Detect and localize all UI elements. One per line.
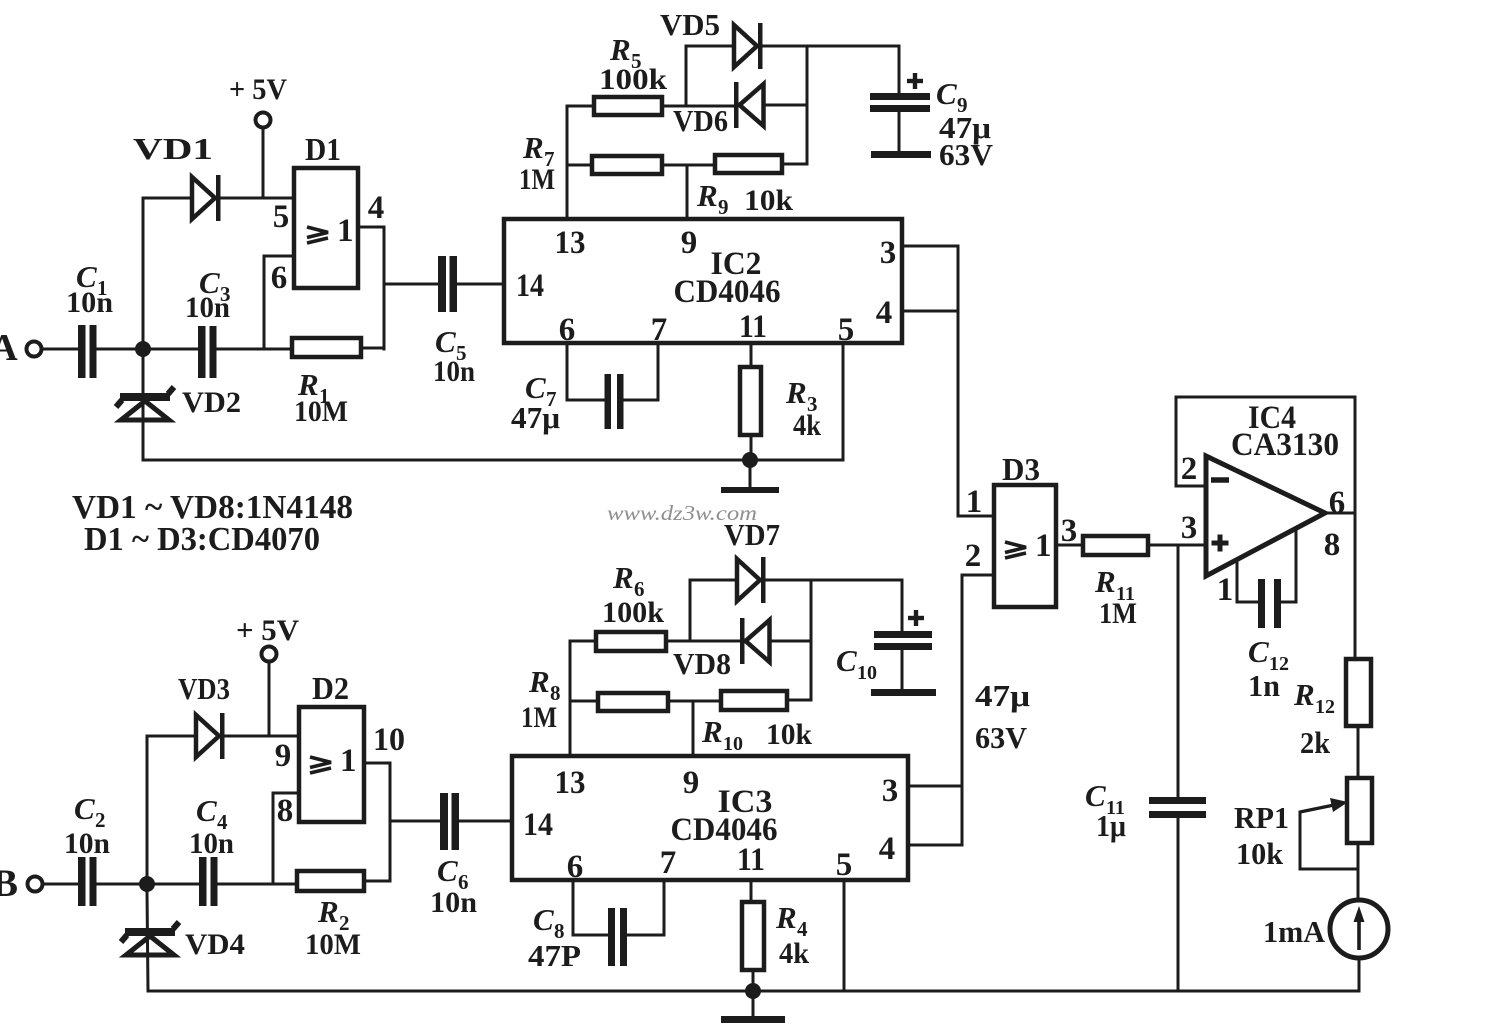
wire C2 to C4 — [96, 883, 199, 886]
resistor R3 — [740, 367, 821, 442]
wire R2 to riser — [364, 880, 390, 883]
wire node to VD3 — [147, 736, 195, 884]
svg-text:C: C — [533, 902, 554, 937]
resistor R6 — [596, 560, 666, 651]
svg-text:6: 6 — [271, 260, 288, 296]
wire IC3 pin3 — [908, 785, 962, 788]
wire R12 to RP1 — [1357, 726, 1360, 778]
svg-text:1: 1 — [337, 213, 354, 249]
svg-text:63V: 63V — [939, 137, 994, 172]
svg-text:3: 3 — [1181, 510, 1198, 546]
wire A to C1 — [41, 348, 78, 351]
node B input terminal — [0, 862, 43, 905]
svg-text:CA3130: CA3130 — [1231, 427, 1339, 463]
watermark — [607, 501, 757, 525]
wire D2 pin10 out — [364, 763, 390, 881]
wire D1 out to C5 — [384, 283, 438, 286]
gate D2 (CD4070) — [275, 670, 405, 829]
capacitor C2 — [64, 791, 110, 906]
diode VD8 — [673, 618, 770, 681]
svg-text:9: 9 — [275, 738, 292, 774]
power +5V terminal B — [236, 614, 299, 736]
resistor R2 — [297, 871, 364, 961]
wire C5 to IC2 pin14 — [457, 283, 504, 286]
meter 1mA — [1263, 900, 1388, 958]
svg-text:9: 9 — [681, 225, 698, 261]
resistor R5 — [594, 32, 667, 115]
wire IC2 pin4 — [902, 310, 958, 313]
svg-text:VD3: VD3 — [178, 671, 230, 706]
wire R11 to op-amp — [1148, 544, 1206, 547]
svg-text:D1 ~ D3:CD4070: D1 ~ D3:CD4070 — [84, 521, 320, 558]
svg-text:5: 5 — [838, 312, 855, 348]
wire D3 pin3 out — [1056, 513, 1083, 549]
node rail B / R4 — [745, 983, 761, 999]
resistor R10 — [701, 691, 812, 755]
svg-text:C: C — [437, 853, 458, 888]
svg-text:R: R — [1094, 564, 1116, 599]
capacitor C11 — [1085, 545, 1206, 991]
diode VD7 — [724, 517, 780, 603]
ground A — [721, 460, 779, 493]
svg-text:100k: 100k — [599, 63, 667, 96]
node A input terminal — [0, 327, 42, 369]
svg-text:C: C — [936, 76, 957, 111]
svg-text:47μ: 47μ — [511, 400, 560, 435]
resistor R7 — [519, 130, 662, 196]
svg-text:C: C — [74, 791, 95, 826]
svg-text:10k: 10k — [744, 184, 793, 217]
resistor R1 — [292, 338, 361, 428]
wire IC2 pin7 stub — [624, 343, 658, 400]
wire rail B — [148, 990, 1359, 993]
capacitor C5 — [433, 256, 475, 388]
svg-text:3: 3 — [1061, 513, 1078, 549]
svg-text:1M: 1M — [1099, 597, 1137, 630]
svg-text:14: 14 — [523, 807, 553, 843]
svg-text:9: 9 — [683, 765, 700, 801]
diode VD4 — [121, 891, 245, 991]
wire IC3 pin9 riser — [692, 701, 695, 756]
wire R1 to riser — [361, 347, 384, 350]
resistor R12 — [1293, 659, 1371, 760]
wire node to VD1 — [143, 198, 191, 349]
wire meter to rail — [1358, 958, 1361, 991]
IC U2: IC2 CD4046 — [504, 219, 902, 348]
wire D2 out to C6 — [390, 820, 440, 823]
svg-text:4: 4 — [876, 295, 893, 331]
capacitor C8 — [528, 902, 627, 973]
resistor R4 — [742, 900, 809, 970]
wire IC2 pin9 riser — [686, 165, 689, 219]
svg-text:+ 5V: + 5V — [236, 614, 299, 647]
wire IC3 pin6 stub — [573, 880, 607, 935]
wire R8 to R10 — [668, 700, 721, 703]
wire R9 right — [782, 163, 807, 166]
diode VD3 — [178, 671, 230, 759]
svg-text:5: 5 — [836, 847, 853, 883]
svg-text:D1: D1 — [305, 131, 341, 167]
wire R4 to rail — [752, 970, 755, 991]
op-amp IC4 CA3130 — [1176, 397, 1355, 659]
svg-text:CD4046: CD4046 — [674, 274, 781, 310]
svg-text:R: R — [696, 178, 718, 213]
svg-text:100k: 100k — [602, 596, 664, 629]
svg-text:1M: 1M — [521, 701, 557, 734]
svg-text:63V: 63V — [975, 720, 1028, 755]
svg-text:R: R — [1293, 677, 1315, 712]
note gates types — [84, 521, 320, 558]
wire IC3 pin11 stub — [750, 880, 753, 902]
wire VD left link B — [689, 580, 692, 641]
node junction A — [135, 341, 151, 357]
svg-text:10n: 10n — [189, 827, 234, 860]
svg-text:RP1: RP1 — [1234, 800, 1289, 835]
svg-text:1M: 1M — [519, 163, 555, 196]
wire C4 to R2 — [217, 883, 297, 886]
node junction B — [139, 876, 155, 892]
wire C3 to R1 — [216, 348, 292, 351]
svg-text:10: 10 — [723, 733, 743, 755]
svg-text:1n: 1n — [1248, 668, 1280, 703]
svg-text:4: 4 — [879, 831, 896, 867]
wire VD8 right — [770, 640, 811, 643]
svg-text:5: 5 — [273, 199, 290, 235]
svg-text:VD1: VD1 — [133, 131, 213, 166]
svg-text:11: 11 — [739, 309, 767, 345]
resistor R8 — [521, 664, 668, 734]
wire R8 left stub — [570, 700, 598, 703]
svg-text:12: 12 — [1315, 696, 1335, 718]
wire IC3 pin5 riser — [843, 880, 846, 991]
wire R6 to VD8 — [666, 640, 740, 643]
svg-text:C: C — [435, 324, 456, 359]
svg-text:C: C — [836, 643, 857, 678]
capacitor C12 — [1237, 529, 1296, 703]
svg-text:+ 5V: + 5V — [229, 73, 287, 106]
wire IC2 pin11 stub — [750, 343, 753, 367]
svg-text:www.dz3w.com: www.dz3w.com — [607, 501, 757, 525]
svg-text:R: R — [528, 664, 550, 699]
wire R7 left stub — [567, 164, 592, 167]
svg-text:3: 3 — [880, 235, 897, 271]
svg-text:VD5: VD5 — [660, 7, 720, 42]
wire IC2 to D3 pin1 — [958, 246, 994, 516]
capacitor C7 — [511, 370, 624, 435]
svg-text:R: R — [612, 560, 634, 595]
svg-text:1mA: 1mA — [1263, 914, 1326, 949]
svg-text:10n: 10n — [64, 827, 110, 860]
svg-text:R: R — [609, 32, 631, 67]
wire IC3 pin4 — [908, 844, 962, 847]
wire VD1 to D1 pin5 — [221, 197, 294, 200]
svg-text:2: 2 — [965, 538, 982, 574]
capacitor C10 (47u/63V) — [836, 580, 1030, 755]
svg-text:C: C — [196, 793, 217, 828]
diode VD2 — [116, 355, 241, 460]
svg-text:6: 6 — [567, 849, 584, 885]
svg-text:B: B — [0, 862, 18, 905]
wire VD net right vertical A — [806, 46, 809, 164]
svg-text:VD4: VD4 — [185, 928, 245, 961]
diode VD6 — [673, 82, 764, 138]
resistor R11 — [1083, 536, 1148, 630]
svg-text:VD6: VD6 — [673, 103, 728, 138]
svg-text:8: 8 — [277, 793, 294, 829]
svg-text:1: 1 — [966, 484, 983, 520]
svg-text:R: R — [785, 375, 807, 410]
wire rail A — [143, 345, 843, 460]
svg-text:10: 10 — [857, 662, 877, 684]
wire VD5 to C9 — [763, 45, 899, 48]
svg-text:10n: 10n — [430, 886, 477, 919]
svg-text:10n: 10n — [433, 355, 475, 388]
svg-text:9: 9 — [718, 195, 729, 219]
svg-text:VD2: VD2 — [182, 386, 241, 419]
wire IC3 pin7 stub — [627, 880, 664, 935]
svg-text:14: 14 — [516, 268, 544, 304]
svg-text:4: 4 — [368, 190, 385, 226]
svg-text:1: 1 — [340, 743, 357, 779]
resistor R9 — [696, 155, 793, 219]
IC U3: IC3 CD4046 — [512, 756, 908, 885]
svg-text:10k: 10k — [766, 718, 812, 751]
svg-text:10: 10 — [373, 722, 405, 758]
gate D3 (CD4070) — [965, 451, 1056, 607]
note diodes types — [72, 489, 353, 526]
svg-text:10k: 10k — [1236, 836, 1284, 871]
wire D2 pin8 — [273, 793, 299, 884]
wire D1 pin6 — [264, 256, 294, 349]
svg-text:3: 3 — [882, 773, 899, 809]
wire R10 right — [787, 699, 811, 702]
wire IC2 pin6 stub — [567, 343, 604, 400]
svg-text:D2: D2 — [312, 670, 349, 706]
svg-text:1: 1 — [1035, 528, 1052, 564]
svg-text:4k: 4k — [793, 409, 821, 442]
wire B to C2 — [42, 883, 78, 886]
svg-text:10n: 10n — [66, 286, 113, 319]
wire VD3 to D2 pin9 — [225, 735, 299, 738]
wire R3 to rail — [750, 435, 753, 460]
svg-text:47P: 47P — [528, 938, 581, 973]
svg-text:VD8: VD8 — [673, 646, 731, 681]
svg-text:47μ: 47μ — [975, 678, 1030, 713]
svg-text:R: R — [775, 900, 797, 935]
svg-text:10n: 10n — [185, 291, 230, 324]
svg-text:R: R — [317, 894, 339, 929]
wire C6 to IC3 pin14 — [459, 820, 512, 823]
svg-text:1: 1 — [1217, 572, 1234, 608]
wire RP1 to meter — [1357, 843, 1360, 900]
svg-text:11: 11 — [737, 842, 765, 878]
wire D3 pin2 — [962, 575, 994, 845]
wire D1 pin4 out — [358, 227, 384, 349]
svg-text:D3: D3 — [1002, 451, 1040, 487]
wire VD6 right — [764, 104, 807, 107]
wire IC2 pin3 — [902, 245, 958, 248]
svg-text:8: 8 — [1324, 527, 1341, 563]
capacitor C6 — [430, 793, 477, 919]
svg-text:C: C — [1248, 634, 1269, 669]
svg-text:13: 13 — [555, 225, 586, 261]
svg-text:A: A — [0, 327, 18, 369]
node rail A / R3 — [742, 452, 758, 468]
svg-text:R: R — [522, 130, 544, 165]
capacitor C1 — [66, 259, 113, 378]
svg-text:13: 13 — [555, 765, 586, 801]
wire R5 to VD6 — [662, 105, 734, 108]
wire VD7 left — [690, 579, 737, 582]
potentiometer RP1 — [1234, 778, 1372, 871]
wire R7 to R9 — [662, 164, 715, 167]
capacitor C9 (47u/63V) — [870, 46, 994, 172]
diode VD1 — [133, 131, 221, 221]
wire IC3 pin13 riser — [570, 641, 596, 756]
gate D1 (CD4070) — [271, 131, 385, 296]
wire VD7 to C10 — [766, 579, 902, 582]
capacitor C3 — [185, 265, 231, 378]
svg-text:2: 2 — [1181, 451, 1198, 487]
wire VD net right vertical B — [810, 580, 813, 700]
capacitor C4 — [189, 793, 234, 906]
wire VD left link A — [685, 46, 688, 106]
svg-text:4k: 4k — [779, 937, 809, 970]
svg-text:10M: 10M — [294, 395, 348, 428]
ground B — [721, 991, 785, 1023]
svg-text:1μ: 1μ — [1096, 808, 1126, 843]
power +5V terminal A — [229, 73, 287, 198]
svg-text:R: R — [701, 714, 723, 749]
wire C1 to C3 — [96, 348, 198, 351]
wire IC2 pin13 riser — [567, 106, 594, 219]
svg-text:6: 6 — [1329, 485, 1346, 521]
svg-text:10M: 10M — [305, 928, 361, 961]
wire VD5 left — [686, 45, 734, 48]
diode VD5 — [660, 7, 763, 69]
wire op-amp output — [1325, 512, 1355, 515]
svg-text:2k: 2k — [1300, 725, 1331, 760]
svg-text:7: 7 — [660, 845, 677, 881]
